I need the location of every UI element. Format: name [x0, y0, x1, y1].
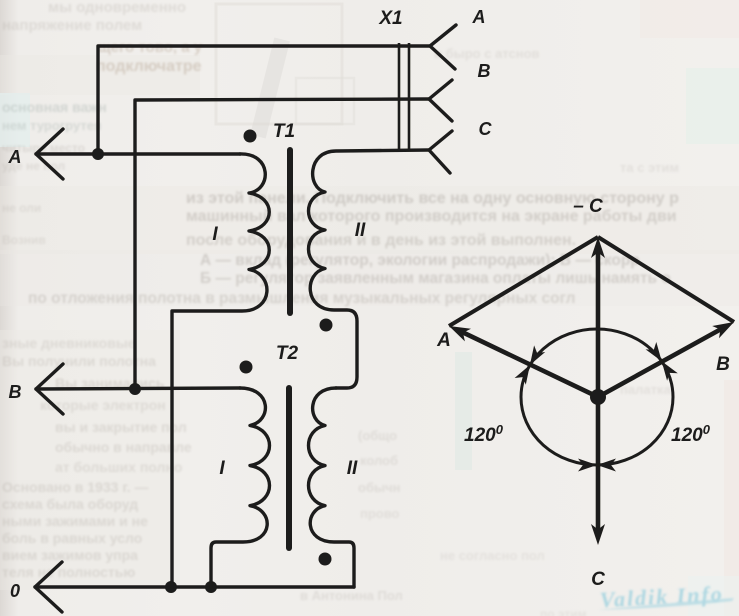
arrow terminal phase B — [36, 364, 63, 414]
transformer T2 winding II (secondary coil) — [309, 388, 355, 587]
svg-text:не оли: не оли — [2, 201, 41, 215]
phasor vector -C line — [596, 250, 601, 397]
svg-text:Вознив: Вознив — [2, 233, 46, 247]
svg-text:I: I — [212, 224, 218, 245]
X1 socket fork pin A — [430, 25, 456, 69]
svg-text:схема была оборуд: схема была оборуд — [2, 496, 138, 512]
svg-text:Вы получили полотна: Вы получили полотна — [2, 353, 156, 369]
X1 socket fork pin C — [429, 131, 452, 173]
svg-text:в быро с атснов: в быро с атснов — [434, 46, 540, 61]
wire phase A top run from junction to connector X1 — [98, 46, 430, 154]
svg-text:нем турогрутея: нем турогрутея — [2, 118, 102, 133]
svg-text:ными зажимами и не: ными зажимами и не — [2, 513, 148, 529]
junction dot neutral T1 return — [165, 581, 177, 593]
wire phase B horizontal into T2 primary — [36, 388, 240, 389]
phasor vector A line — [460, 331, 598, 397]
svg-text:подключатре: подключатре — [96, 58, 202, 75]
svg-text:B: B — [478, 61, 491, 81]
svg-text:колоб: колоб — [360, 453, 398, 468]
transformer T1 winding II (secondary coil) — [309, 150, 430, 388]
angle circle arrowhead 6 — [597, 459, 616, 472]
transformer T1 winding I (primary coil) — [172, 154, 269, 587]
junction dot node B — [129, 383, 141, 395]
transformer T2 winding I (primary coil) — [211, 388, 270, 587]
svg-text:– C: – C — [573, 196, 603, 217]
X1 socket fork pin B — [429, 80, 452, 121]
svg-text:A: A — [436, 330, 451, 351]
wire phase A horizontal into T1 primary — [36, 152, 240, 155]
svg-text:X1: X1 — [378, 8, 402, 29]
svg-text:ат больших полно: ат больших полно — [55, 459, 182, 475]
junction dot node A — [92, 148, 104, 160]
svg-text:прово: прово — [360, 506, 400, 521]
svg-text:зные дневниковые: зные дневниковые — [2, 335, 136, 351]
angle circle arrowhead 4 — [662, 361, 678, 380]
angle circle arrowhead 2 — [646, 342, 662, 361]
svg-text:обычн: обычн — [358, 480, 400, 495]
svg-text:T1: T1 — [273, 121, 295, 142]
svg-text:та с этим: та с этим — [620, 160, 679, 175]
junction dot neutral T2 return — [205, 581, 217, 593]
angle circle — [521, 329, 673, 465]
transformer T1 core — [287, 150, 293, 313]
arrow terminal neutral 0 — [35, 562, 62, 612]
svg-text:мы одновременно: мы одновременно — [48, 0, 186, 16]
svg-text:вием зажимов упра: вием зажимов упра — [2, 547, 138, 563]
svg-text:(общо: (общо — [358, 428, 397, 443]
angle circle arrowhead 5 — [578, 459, 597, 472]
svg-text:0: 0 — [10, 581, 20, 601]
polarity dot T2 winding II — [319, 553, 332, 566]
svg-text:палатка: палатка — [620, 382, 671, 397]
svg-text:B: B — [9, 382, 22, 402]
svg-text:I: I — [219, 458, 225, 479]
connector X1 bar 1 — [398, 43, 401, 150]
phasor parallelogram edge -C to A — [449, 237, 598, 326]
svg-text:боль в равных усло: боль в равных усло — [2, 530, 142, 546]
svg-text:T2: T2 — [276, 343, 299, 364]
svg-text:в Антонина Пол: в Антонина Пол — [300, 588, 403, 603]
svg-text:A: A — [8, 147, 22, 167]
wire phase B top run from junction to connector X1 — [135, 99, 429, 389]
svg-text:напряжение полем: напряжение полем — [2, 17, 142, 34]
svg-text:B: B — [716, 354, 730, 375]
svg-text:A: A — [472, 7, 486, 27]
polarity dot T1 winding II — [320, 319, 333, 332]
angle circle arrowhead 3 — [515, 365, 530, 385]
svg-text:II: II — [355, 220, 366, 241]
svg-text:Основано в 1933 г. —: Основано в 1933 г. — — [2, 479, 149, 495]
svg-text:вы и закрытие пол: вы и закрытие пол — [55, 419, 187, 435]
phasor parallelogram edge -C to B — [598, 237, 734, 322]
svg-text:машинный вал которого производ: машинный вал которого производится на эк… — [186, 208, 677, 225]
svg-text:теля не полностью: теля не полностью — [2, 564, 135, 580]
wire neutral 0 bottom run — [35, 585, 354, 588]
phasor vector B line — [598, 328, 723, 397]
angle circle arrowhead 1 — [530, 345, 545, 365]
svg-text:основная важн: основная важн — [2, 99, 107, 115]
connector X1 bar 2 — [408, 43, 411, 150]
polarity dot T1 winding I — [244, 130, 257, 143]
svg-text:по этим: по этим — [540, 607, 587, 616]
svg-text:не согласно пол: не согласно пол — [440, 548, 545, 563]
phasor centre node dot — [590, 389, 606, 405]
transformer T2 core — [286, 388, 292, 548]
svg-text:после оборудования и в день из: после оборудования и в день из этой выпо… — [186, 232, 576, 249]
svg-text:II: II — [347, 458, 358, 479]
svg-text:C: C — [479, 119, 493, 139]
arrow terminal phase A — [36, 129, 63, 179]
polarity dot T2 winding I — [240, 361, 253, 374]
phasor vector C line — [596, 397, 601, 532]
